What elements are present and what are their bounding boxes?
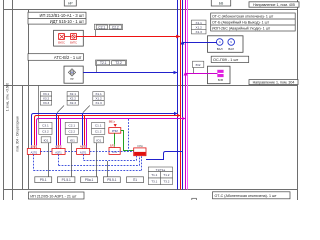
svg-text:ОТ-С (Абонентская отключена)-: ОТ-С (Абонентская отключена)- 1 шт [212,15,274,19]
svg-text:А2П1: А2П1 [80,150,87,154]
svg-text:ИП 212/В1-10-А1 - 3 шт: ИП 212/В1-10-А1 - 3 шт [40,13,85,18]
svg-text:Р5.5.1: Р5.5.1 [107,178,116,182]
svg-text:Х1.3: Х1.3 [95,101,102,105]
svg-text:Х1.1: Х1.1 [95,92,102,96]
svg-text:Направление 1, пом. 405: Направление 1, пом. 405 [253,3,295,7]
svg-text:С1.2: С1.2 [95,130,102,134]
svg-text:ОТ-Б (Аварийный На Выход)- 1 ш: ОТ-Б (Аварийный На Выход)- 1 шт [212,21,269,25]
svg-text:С2.1: С2.1 [98,25,105,29]
svg-text:ОТ-С (Абонентская отключена)-: ОТ-С (Абонентская отключена)- 1 шт [215,194,277,198]
svg-text:Т1.2: Т1.2 [163,173,169,177]
svg-text:С1.1: С1.1 [95,124,102,128]
svg-text:БВ: БВ [219,2,224,6]
svg-text:Т2.1: Т2.1 [100,61,107,65]
svg-text:пом. 304 - Операторная: пом. 304 - Операторная [16,116,20,152]
svg-text:Ю1: Ю1 [96,138,101,142]
svg-text:С3.1: С3.1 [42,124,49,128]
svg-text:НР: НР [68,2,73,6]
svg-text:А9П2: А9П2 [31,144,38,148]
svg-text:Х2.1: Х2.1 [70,92,77,96]
svg-text:РПМ: РПМ [112,129,119,133]
svg-text:ВАЛ: ВАЛ [228,47,234,51]
svg-text:Х3.1: Х3.1 [43,92,50,96]
svg-text:С2.1: С2.1 [69,124,76,128]
svg-text:1 зона, отм. +3.600: 1 зона, отм. +3.600 [6,83,10,111]
svg-text:С2.2: С2.2 [69,130,76,134]
svg-text:Х3.2: Х3.2 [43,97,50,101]
svg-text:Х1.1: Х1.1 [196,21,203,25]
svg-text:Х1.3: Х1.3 [196,30,203,34]
svg-text:А2П1: А2П1 [31,150,38,154]
svg-text:Ю2: Ю2 [196,63,201,67]
svg-text:N: N [219,40,221,44]
svg-text:А9П2: А9П2 [55,144,62,148]
svg-text:ВУОС: ВУОС [58,42,65,45]
svg-text:А2П1: А2П1 [55,150,62,154]
svg-text:Х1.2: Х1.2 [196,26,203,30]
svg-text:С2.2: С2.2 [112,25,119,29]
svg-text:Х1.2: Х1.2 [95,97,102,101]
svg-text:Р5.1: Р5.1 [40,178,47,182]
svg-text:С3.2: С3.2 [42,130,49,134]
svg-text:ВАЛ: ВАЛ [217,47,223,51]
svg-text:Р1.5.1: Р1.5.1 [62,178,71,182]
svg-text:АТС-В/2 - 1 шт: АТС-В/2 - 1 шт [54,55,82,60]
svg-text:ИП 212/05-10-А3Р1 - 21 шт: ИП 212/05-10-А3Р1 - 21 шт [30,194,77,198]
svg-text:Т1.1: Т1.1 [151,173,157,177]
svg-text:Р5а.1: Р5а.1 [85,178,94,182]
svg-text:ОРШ: ОРШ [137,145,144,148]
svg-text:N: N [230,40,232,44]
svg-text:Х2.3: Х2.3 [70,101,77,105]
svg-text:НР: НР [70,78,74,81]
svg-text:Т3.1: Т3.1 [151,180,157,184]
svg-text:Х2.2: Х2.2 [70,97,77,101]
svg-text:П1: П1 [133,178,137,182]
svg-text:Т3.2: Т3.2 [163,180,169,184]
svg-text:Т1/Т1а: Т1/Т1а [156,168,166,172]
svg-text:ИОП-2БС (Аварийный Уходи)- 1 ш: ИОП-2БС (Аварийный Уходи)- 1 шт [212,27,271,31]
svg-text:Т2.2: Т2.2 [115,61,122,65]
svg-text:А9П2: А9П2 [80,144,87,148]
svg-text:Х3.3: Х3.3 [43,101,50,105]
svg-text:ИДТ 515-10 - 1 шт: ИДТ 515-10 - 1 шт [50,19,84,24]
svg-text:Ю1: Ю1 [70,138,75,142]
svg-text:ВВ1х: ВВ1х [109,119,116,123]
svg-text:ВУПС: ВУПС [70,42,77,45]
svg-text:ОС-П09 - 1 шт: ОС-П09 - 1 шт [213,58,238,62]
svg-text:Направление 1, пом. 304: Направление 1, пом. 304 [253,81,295,85]
svg-text:Ю1: Ю1 [44,138,49,142]
svg-text:БОВ: БОВ [218,79,224,82]
